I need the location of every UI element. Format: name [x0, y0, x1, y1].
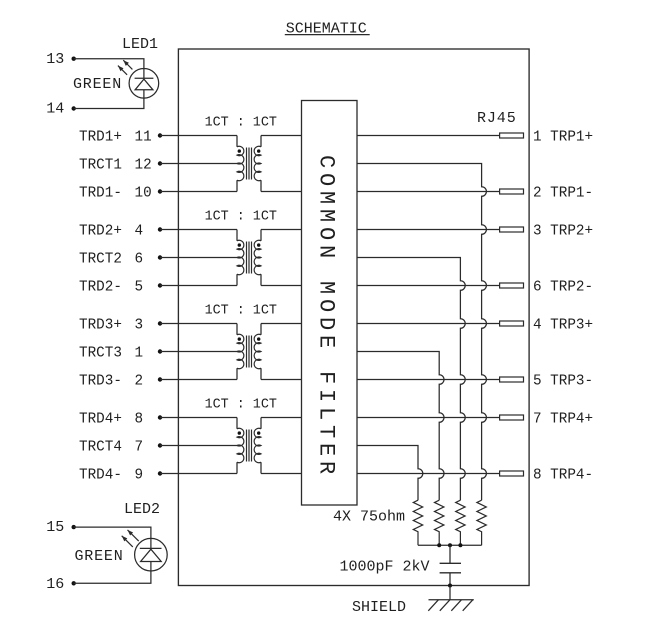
ground (chassis shield) [428, 600, 474, 611]
net TRD4+ label [79, 411, 143, 427]
resistor R3 75ohm [435, 500, 444, 545]
junction rail-R3 [458, 543, 462, 547]
svg-text:TRD3-: TRD3- [79, 373, 122, 389]
svg-text:12: 12 [135, 157, 152, 173]
wire pin 5 to T- primary [160, 285, 237, 287]
svg-text:2: 2 [135, 373, 144, 389]
RJ45 pad 7 [500, 415, 524, 420]
svg-text:5: 5 [135, 279, 144, 295]
svg-text:8: 8 [135, 411, 144, 427]
wire T4 secondary top to filter [261, 417, 302, 419]
junction shield node [448, 584, 452, 588]
RJ45 pad 4 [500, 321, 524, 326]
svg-text:11: 11 [135, 129, 152, 145]
net TRCT2 label [79, 251, 143, 267]
resistor R4 75ohm [413, 500, 422, 545]
net TRD2- label [79, 279, 143, 295]
wire pin15 to LED2 [74, 527, 151, 538]
node pin 5 [158, 283, 162, 287]
transformer T2 ratio label 1CT : 1CT [205, 209, 277, 224]
LED2 symbol [135, 538, 168, 571]
net TRP3- label [533, 373, 593, 389]
transformer T1 ratio label 1CT : 1CT [205, 115, 277, 130]
wire filter to pad 6 (TRP2-) [357, 285, 500, 287]
wire pin 11 to T+ primary [160, 135, 237, 137]
svg-text:1CT : 1CT: 1CT : 1CT [205, 303, 277, 318]
svg-text:8 TRP4-: 8 TRP4- [533, 467, 593, 483]
net TRD1- label [79, 185, 152, 201]
junction rail-cap [448, 543, 452, 547]
svg-text:SHIELD: SHIELD [352, 599, 406, 616]
svg-text:LED2: LED2 [124, 501, 160, 518]
net TRCT4 label [79, 439, 143, 455]
net TRD4- label [79, 467, 143, 483]
wire filter to pad 8 (TRP4-) [357, 473, 500, 475]
net TRD3- label [79, 373, 143, 389]
svg-text:4: 4 [135, 223, 144, 239]
svg-text:15: 15 [46, 519, 64, 536]
wire T2 secondary bottom to filter [261, 285, 302, 287]
wire T3 secondary bottom to filter [261, 379, 302, 381]
net TRP1- label [533, 185, 593, 201]
RJ45 pad 6 [500, 283, 524, 288]
node pin 8 [158, 415, 162, 419]
transformer T4 ratio label 1CT : 1CT [205, 397, 277, 412]
wire pin 9 to T- primary [160, 473, 237, 475]
net TRP4- label [533, 467, 593, 483]
RJ45 pad 5 [500, 377, 524, 382]
svg-text:1CT : 1CT: 1CT : 1CT [205, 115, 277, 130]
net TRCT1 label [79, 157, 152, 173]
node pin 14 [72, 106, 76, 110]
wire pin 10 to T- primary [160, 191, 237, 193]
wire pin 3 to T+ primary [160, 323, 237, 325]
node pin 13 [72, 57, 76, 61]
svg-text:TRCT1: TRCT1 [79, 157, 122, 173]
svg-text:5 TRP3-: 5 TRP3- [533, 373, 593, 389]
wire pin 7 to T4 primary [160, 445, 239, 447]
LED1 GREEN label [73, 76, 122, 93]
svg-text:GREEN: GREEN [75, 548, 124, 565]
svg-text:COMMON MODE FILTER: COMMON MODE FILTER [314, 155, 339, 479]
wire filter to pad 4 (TRP3+) [357, 323, 500, 325]
svg-text:TRD4-: TRD4- [79, 467, 122, 483]
svg-text:TRCT3: TRCT3 [79, 345, 122, 361]
LED1 label [122, 36, 158, 53]
wire net TRCT4 termination bus [357, 446, 423, 501]
RJ45 pad 2 [500, 189, 524, 194]
capacitor C1 1000pF 2kV [440, 563, 461, 573]
resistor value label 4X 75ohm [333, 509, 405, 526]
svg-text:3: 3 [135, 317, 144, 333]
wire pin 4 to T+ primary [160, 229, 237, 231]
RJ45 pad 3 [500, 227, 524, 232]
svg-text:GREEN: GREEN [73, 76, 122, 93]
transformer T3 [237, 324, 261, 380]
node pin 10 [158, 189, 162, 193]
net TRD3+ label [79, 317, 143, 333]
svg-text:TRD2-: TRD2- [79, 279, 122, 295]
node pin 6 [158, 255, 162, 259]
LED2 label [124, 501, 160, 518]
wire pin 1 to T3 primary [160, 351, 239, 353]
svg-text:LED1: LED1 [122, 36, 158, 53]
wire LED2 to pin16 [74, 571, 151, 583]
wire filter to pad 7 (TRP4+) [357, 417, 500, 419]
net TRP4+ label [533, 411, 593, 427]
wire T2 secondary top to filter [261, 229, 302, 231]
svg-text:2 TRP1-: 2 TRP1- [533, 185, 593, 201]
svg-text:TRD4+: TRD4+ [79, 411, 122, 427]
svg-text:6: 6 [135, 251, 144, 267]
wire T3 secondary top to filter [261, 323, 302, 325]
transformer T4 [237, 418, 261, 474]
svg-text:4 TRP3+: 4 TRP3+ [533, 317, 593, 333]
svg-text:14: 14 [46, 101, 64, 118]
wire LED1 cathode to pin14 [74, 98, 144, 108]
wire shield stem [449, 586, 451, 600]
capacitor value label [340, 558, 430, 575]
wire capacitor to shield [449, 573, 451, 586]
title SCHEMATIC [285, 21, 370, 38]
net TRD1+ label [79, 129, 152, 145]
wire T4 secondary bottom to filter [261, 473, 302, 475]
node pin 1 [158, 349, 162, 353]
node pin 15 [72, 525, 76, 529]
wire filter to pad 1 (TRP1+) [357, 135, 500, 137]
svg-text:1CT : 1CT: 1CT : 1CT [205, 397, 277, 412]
LED2 pin 15 label [46, 519, 64, 536]
wire net TRCT1 termination bus [357, 164, 486, 501]
wire pin13 to LED1 anode [74, 59, 144, 69]
svg-text:3 TRP2+: 3 TRP2+ [533, 223, 593, 239]
svg-text:TRCT2: TRCT2 [79, 251, 122, 267]
net TRP2+ label [533, 223, 593, 239]
node pin 3 [158, 321, 162, 325]
node pin 4 [158, 227, 162, 231]
LED2 pin 16 label [46, 576, 64, 593]
resistor R1 75ohm [477, 500, 486, 545]
common mode filter FL1 [302, 101, 358, 506]
node pin 9 [158, 471, 162, 475]
svg-text:RJ45: RJ45 [477, 110, 517, 127]
wire pin 8 to T+ primary [160, 417, 237, 419]
net TRCT3 label [79, 345, 143, 361]
node pin 2 [158, 377, 162, 381]
resistor R2 75ohm [456, 500, 465, 545]
svg-text:TRD1-: TRD1- [79, 185, 122, 201]
svg-text:6 TRP2-: 6 TRP2- [533, 279, 593, 295]
svg-text:TRD2+: TRD2+ [79, 223, 122, 239]
LED2 GREEN label [75, 548, 124, 565]
svg-text:1CT : 1CT: 1CT : 1CT [205, 209, 277, 224]
svg-text:1: 1 [135, 345, 144, 361]
LED1 pin 14 label [46, 101, 64, 118]
LED1 symbol [129, 69, 159, 99]
wire filter to pad 5 (TRP3-) [357, 379, 500, 381]
node pin 11 [158, 133, 162, 137]
wire T1 secondary bottom to filter [261, 191, 302, 193]
svg-text:9: 9 [135, 467, 144, 483]
wire T1 secondary top to filter [261, 135, 302, 137]
node pin 16 [72, 581, 76, 585]
svg-text:10: 10 [135, 185, 152, 201]
svg-text:1 TRP1+: 1 TRP1+ [533, 129, 593, 145]
transformer T1 [237, 136, 261, 192]
svg-text:7 TRP4+: 7 TRP4+ [533, 411, 593, 427]
RJ45 pad 1 [500, 133, 524, 138]
svg-text:1000pF 2kV: 1000pF 2kV [340, 558, 430, 575]
transformer T3 ratio label 1CT : 1CT [205, 303, 277, 318]
wire pin 2 to T- primary [160, 379, 237, 381]
svg-text:TRD1+: TRD1+ [79, 129, 122, 145]
wire filter to pad 2 (TRP1-) [357, 191, 500, 193]
RJ45 label [477, 110, 517, 127]
svg-text:TRD3+: TRD3+ [79, 317, 122, 333]
net TRD2+ label [79, 223, 143, 239]
module outline U1 [178, 49, 529, 586]
net TRP3+ label [533, 317, 593, 333]
node pin 7 [158, 443, 162, 447]
wire filter to pad 3 (TRP2+) [357, 229, 500, 231]
wire termination rail [418, 544, 482, 546]
node pin 12 [158, 161, 162, 165]
RJ45 pad 8 [500, 471, 524, 476]
svg-text:16: 16 [46, 576, 64, 593]
svg-text:4X 75ohm: 4X 75ohm [333, 509, 405, 526]
wire pin 6 to T2 primary [160, 257, 239, 259]
wire net TRCT2 termination bus [357, 258, 465, 501]
SHIELD label [352, 599, 406, 616]
wire rail to capacitor [449, 545, 451, 563]
transformer T2 [237, 230, 261, 286]
net TRP1+ label [533, 129, 593, 145]
svg-text:13: 13 [46, 51, 64, 68]
svg-text:7: 7 [135, 439, 144, 455]
LED1 pin 13 label [46, 51, 64, 68]
junction rail-R2 [437, 543, 441, 547]
LED1 emission arrows [118, 60, 132, 75]
LED2 emission arrows [122, 530, 139, 547]
wire pin 12 to T1 primary [160, 163, 239, 165]
svg-text:TRCT4: TRCT4 [79, 439, 122, 455]
net TRP2- label [533, 279, 593, 295]
wire net TRCT3 termination bus [357, 352, 444, 501]
